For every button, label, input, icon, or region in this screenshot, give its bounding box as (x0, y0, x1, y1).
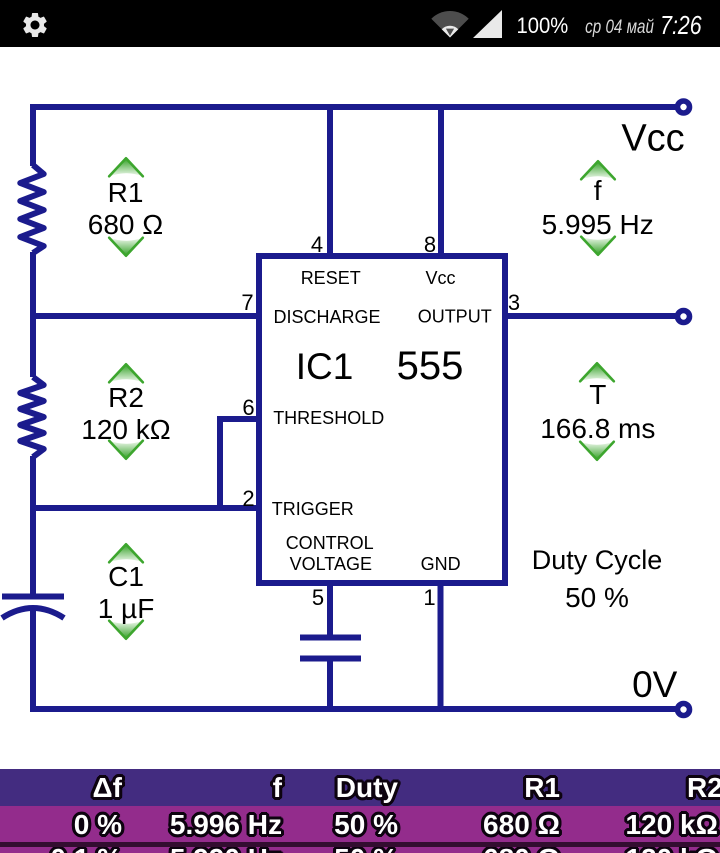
svg-text:Vcc: Vcc (621, 118, 684, 160)
wire pin 8 (438, 104, 444, 256)
spinner T down (580, 442, 614, 461)
svg-text:RESET: RESET (301, 268, 361, 288)
svg-text:DISCHARGE: DISCHARGE (273, 307, 380, 327)
svg-text:TRIGGER: TRIGGER (272, 499, 354, 519)
svg-text:1 µF: 1 µF (98, 593, 155, 624)
svg-text:50 %: 50 % (565, 582, 629, 613)
svg-text:R2: R2 (108, 382, 144, 413)
wire pin 5 lower (327, 661, 333, 712)
wire pin 7 (30, 313, 262, 319)
wire top rail (30, 104, 676, 110)
wire bottom rail (30, 706, 676, 712)
svg-text:555: 555 (397, 344, 464, 388)
spinner C1 down (109, 621, 143, 640)
svg-text:OUTPUT: OUTPUT (418, 307, 492, 327)
svg-text:VOLTAGE: VOLTAGE (290, 554, 372, 574)
wifi icon (430, 10, 470, 39)
capacitor CV bottom plate (300, 656, 361, 662)
svg-text:GND: GND (421, 554, 461, 574)
svg-text:T: T (589, 379, 606, 410)
svg-text:THRESHOLD: THRESHOLD (273, 408, 384, 428)
capacitor C1 curved plate (2, 608, 64, 618)
spinner C1 up (109, 544, 143, 563)
op-amp/IC body rectangle U1 (259, 256, 505, 583)
svg-text:0V: 0V (632, 664, 678, 705)
resistor R1 (20, 165, 43, 253)
spinner f down (581, 237, 615, 256)
svg-text:IC1: IC1 (296, 346, 354, 387)
svg-text:3: 3 (508, 290, 520, 315)
wire left rail segment 1 (30, 104, 36, 166)
svg-text:120 kΩ: 120 kΩ (81, 414, 170, 445)
wire pin 2 trigger (30, 505, 262, 511)
capacitor CV top plate (300, 635, 361, 641)
spinner R1 up (109, 158, 143, 177)
wire pin 3 output (505, 313, 676, 319)
terminal output (678, 311, 690, 323)
svg-text:680 Ω: 680 Ω (88, 209, 163, 240)
resistor R2 (20, 377, 43, 457)
svg-text:5.995 Hz: 5.995 Hz (542, 209, 654, 240)
spinner R2 up (109, 364, 143, 383)
spinner R1 down (109, 238, 143, 257)
wire pin 6 jog (220, 419, 262, 508)
result table (0, 769, 720, 853)
spinner R2 down (109, 441, 143, 460)
svg-text:C1: C1 (108, 561, 144, 592)
wire pin 4 (327, 104, 333, 256)
svg-text:166.8 ms: 166.8 ms (540, 413, 655, 444)
svg-text:Vcc: Vcc (425, 268, 455, 288)
signal icon (473, 10, 502, 38)
spinner f up (581, 161, 615, 180)
wire pin 5 (327, 583, 333, 635)
svg-text:7: 7 (241, 290, 253, 315)
wire left rail segment 4 (30, 611, 36, 712)
terminal 0V (678, 704, 690, 716)
wire left rail segment 3 (30, 456, 36, 594)
capacitor C1 top plate (2, 594, 64, 600)
svg-text:8: 8 (424, 232, 436, 257)
svg-text:5: 5 (312, 585, 324, 610)
svg-text:1: 1 (423, 585, 435, 610)
terminal Vcc (678, 101, 690, 113)
svg-text:2: 2 (242, 486, 254, 511)
wire left rail segment 2 (30, 252, 36, 377)
settings gear icon (20, 10, 50, 40)
svg-text:f: f (594, 175, 602, 206)
status bar (0, 0, 720, 47)
svg-text:6: 6 (242, 395, 254, 420)
wire pin 1 (438, 583, 444, 712)
svg-text:R1: R1 (108, 177, 144, 208)
svg-text:CONTROL: CONTROL (286, 533, 374, 553)
svg-text:Duty Cycle: Duty Cycle (532, 545, 663, 575)
svg-text:4: 4 (311, 232, 323, 257)
spinner T up (580, 363, 614, 382)
